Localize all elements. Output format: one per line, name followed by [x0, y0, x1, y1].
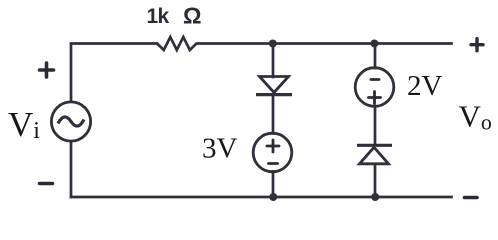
diode D1: [256, 77, 292, 95]
plus inside 3V source: [267, 140, 279, 152]
node D bottom right junction: [371, 193, 379, 201]
plus inside 2V source: [369, 92, 381, 104]
wire middle branch between diode and 3V source: [272, 96, 275, 134]
plus sign of Vi: [40, 63, 54, 77]
wire bottom rail: [71, 196, 452, 199]
svg-text:3V: 3V: [202, 133, 238, 165]
minus inside 2V source: [371, 78, 379, 81]
voltage source 3V: [253, 133, 292, 172]
node B top right junction: [370, 40, 378, 48]
node C bottom middle junction: [269, 193, 277, 201]
voltage source Vi (AC): [51, 102, 90, 141]
svg-text:Ω: Ω: [183, 3, 202, 29]
wire left vertical above source: [71, 44, 157, 102]
minus sign of Vi: [40, 182, 53, 186]
diode D2: [357, 145, 392, 164]
node A top middle junction: [269, 40, 277, 48]
wire top from resistor to right end: [197, 42, 452, 45]
svg-text:k: k: [158, 5, 170, 28]
wire right branch between 2V source and diode: [374, 106, 377, 145]
wire right branch lower: [374, 165, 377, 198]
resistor R1: [157, 37, 197, 50]
minus inside 3V source: [269, 162, 278, 165]
plus sign of Vo: [471, 39, 483, 51]
svg-text:Vo: Vo: [459, 99, 492, 135]
svg-text:2V: 2V: [407, 70, 443, 102]
voltage source 2V: [355, 68, 394, 107]
wire middle branch upper: [272, 44, 275, 78]
minus sign of Vo: [465, 196, 478, 200]
wire middle branch lower: [272, 172, 275, 198]
wire top-left segment: [70, 142, 73, 198]
wire right branch upper: [374, 44, 377, 69]
svg-text:Vi: Vi: [8, 105, 40, 144]
